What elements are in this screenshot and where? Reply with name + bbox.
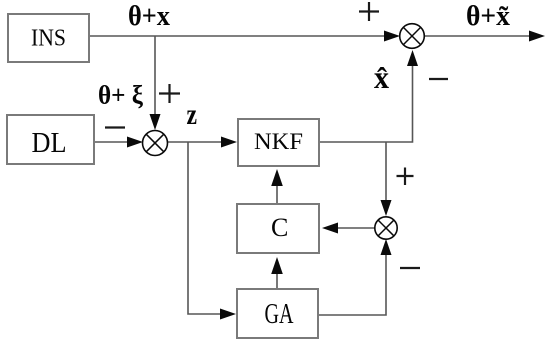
svg-text:θ+ ξ: θ+ ξ bbox=[98, 81, 143, 110]
svg-text:θ+x̃: θ+x̃ bbox=[466, 1, 510, 32]
svg-text:z: z bbox=[187, 98, 198, 131]
svg-text:C: C bbox=[271, 213, 288, 242]
svg-text:θ+x: θ+x bbox=[128, 1, 170, 32]
svg-text:GA: GA bbox=[265, 299, 295, 330]
svg-text:NKF: NKF bbox=[254, 129, 303, 154]
svg-text:x̂: x̂ bbox=[374, 59, 389, 95]
svg-text:DL: DL bbox=[32, 127, 67, 159]
svg-text:INS: INS bbox=[31, 26, 66, 52]
